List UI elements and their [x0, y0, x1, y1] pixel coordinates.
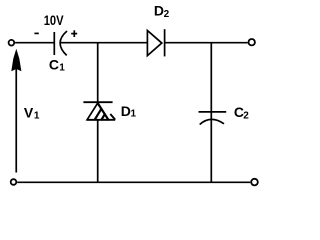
capacitor C2 curved plate [200, 119, 224, 124]
capacitor C1 left plate [53, 32, 55, 55]
diode D2 cathode bar [164, 29, 166, 56]
svg-text:D: D [154, 2, 164, 18]
V1 arrow shaft [15, 64, 17, 173]
svg-text:2: 2 [243, 110, 249, 121]
V1 arrowhead [11, 49, 21, 71]
wire D2 to top-right through node B [165, 42, 248, 44]
wire C1 to D2 through node A [61, 42, 148, 44]
plus sign of C1 horizontal [71, 33, 77, 35]
plus sign of C1 vertical [73, 30, 75, 37]
svg-text:2: 2 [164, 9, 170, 20]
node A vertical wire to D1 [97, 43, 99, 103]
svg-text:1: 1 [59, 62, 65, 73]
minus sign of C1 [34, 32, 38, 34]
wire D1 to bottom rail [97, 120, 99, 183]
svg-text:C: C [49, 56, 59, 72]
zener D1 hatch line a [94, 108, 101, 120]
terminal top-left [9, 40, 15, 46]
zener D1 triangle [87, 103, 108, 120]
zener D1 corner hatch line [110, 114, 115, 120]
bottom rail wire [17, 181, 250, 183]
terminal top-right [249, 39, 255, 45]
capacitor C2 top plate [199, 111, 227, 113]
diode D2 triangle [147, 31, 161, 56]
terminal bottom-left [11, 179, 17, 185]
svg-text:10V: 10V [44, 12, 64, 28]
svg-text:1: 1 [131, 108, 137, 119]
svg-text:1: 1 [34, 110, 40, 121]
wire top-left to C1 [15, 42, 53, 44]
svg-text:D: D [121, 103, 131, 119]
zener D1 cathode bar [83, 101, 112, 103]
zener D1 right edge [98, 103, 109, 120]
zener D1 base extension [87, 119, 115, 121]
svg-text:V: V [24, 105, 34, 121]
zener D1 hatch line b [101, 114, 105, 120]
capacitor C1 curved plate [60, 31, 67, 55]
terminal bottom-right [251, 179, 258, 186]
node B vertical wire through C2 to bottom rail [210, 43, 212, 183]
